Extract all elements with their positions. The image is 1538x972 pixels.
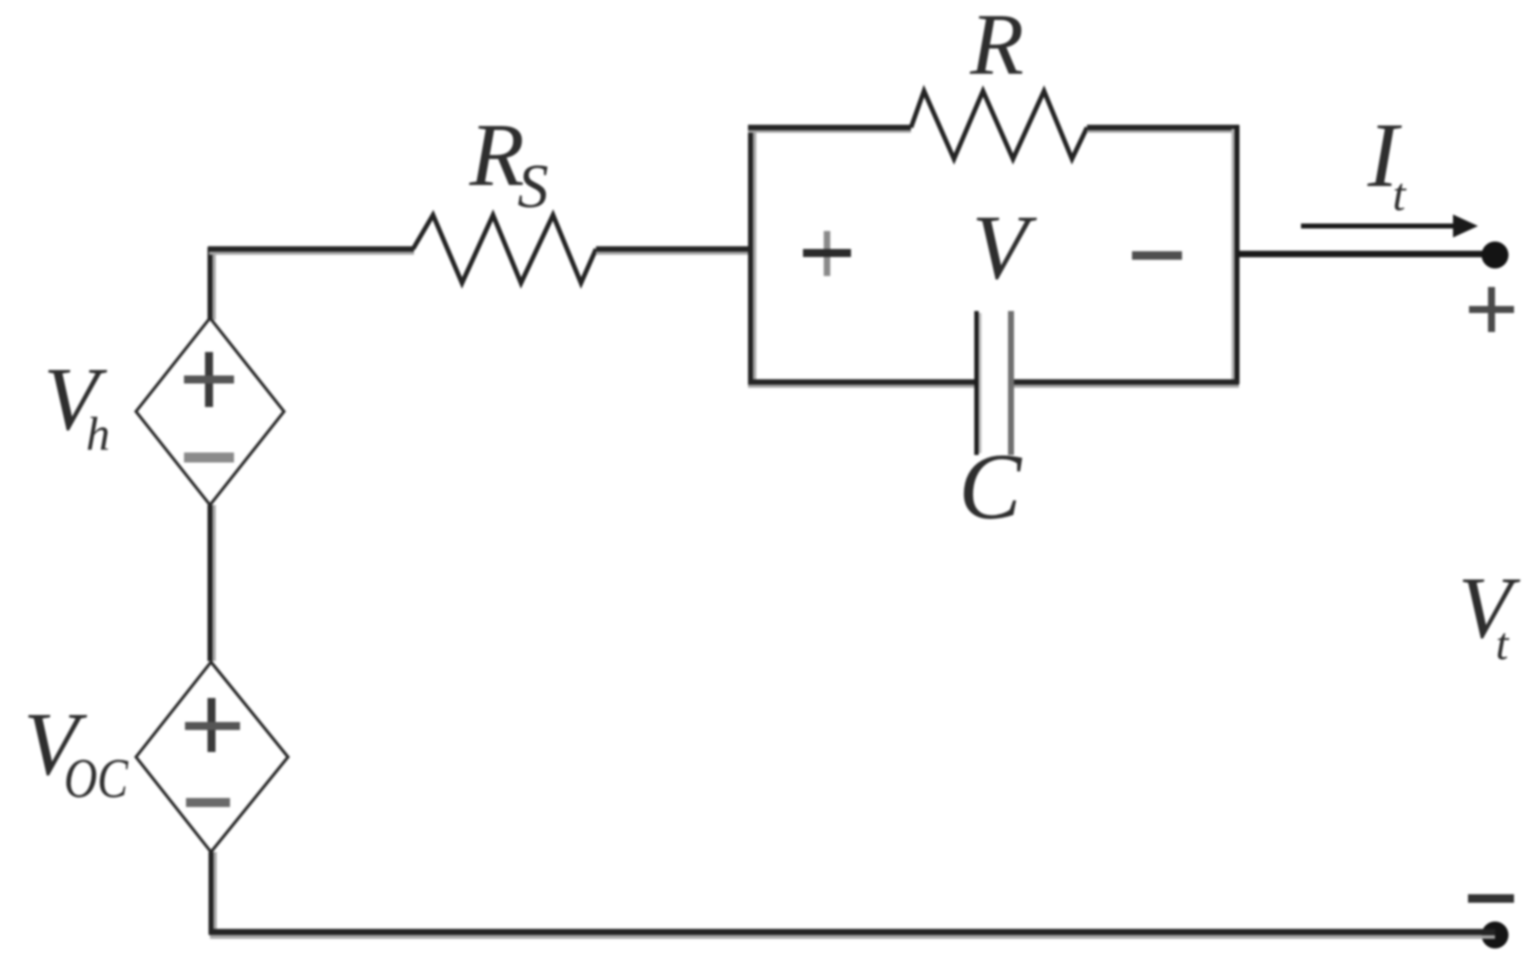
source Vh diamond (136, 318, 284, 505)
label RS (469, 106, 549, 221)
wire top horizontal left segment (208, 249, 414, 253)
RC block bottom edge right segment (1011, 382, 1239, 386)
source Voc diamond (136, 662, 288, 852)
RC block top edge right segment (1087, 128, 1239, 132)
svg-text:R: R (469, 106, 525, 205)
minus sign inside Voc (186, 798, 230, 807)
bottom rail wire (209, 932, 1495, 937)
plus sign at output terminal (1469, 287, 1514, 332)
wire from top node down to Vh top vertex (210, 247, 214, 320)
label Voc (24, 695, 129, 810)
svg-text:t: t (1392, 169, 1406, 221)
capacitor C left plate (977, 311, 981, 455)
RC block bottom edge left segment (748, 382, 976, 386)
RC block left edge (751, 125, 755, 384)
wire RC block to output node (1237, 251, 1484, 258)
wire between Vh and Voc (210, 505, 214, 661)
minus sign inside RC block (1132, 251, 1182, 260)
minus sign at output terminal (1468, 894, 1514, 903)
svg-text:V: V (1458, 560, 1521, 657)
label It (1367, 104, 1407, 221)
svg-text:t: t (1496, 618, 1510, 669)
resistor R zigzag (911, 91, 1087, 159)
wire Voc bottom vertex down to bottom rail (211, 852, 215, 934)
label Vh (44, 350, 110, 461)
RC block right edge (1233, 125, 1237, 384)
current arrow It (1301, 215, 1478, 238)
RC block top edge left segment (748, 128, 911, 132)
label Vt (1458, 560, 1521, 669)
node dot bottom right terminal (1482, 922, 1509, 949)
svg-text:R: R (969, 0, 1024, 94)
node dot top right terminal (1482, 242, 1509, 269)
minus sign inside Vh (184, 453, 234, 463)
resistor RS zigzag (413, 215, 596, 283)
capacitor C right plate (1008, 311, 1014, 455)
svg-text:V: V (972, 196, 1038, 298)
plus sign inside Voc (185, 698, 240, 752)
wire RS to RC block (596, 249, 751, 253)
svg-text:S: S (518, 153, 549, 221)
plus sign inside RC block (803, 231, 851, 276)
plus sign inside Vh (184, 352, 234, 407)
svg-text:C: C (959, 435, 1023, 539)
svg-text:OC: OC (64, 748, 129, 810)
svg-text:h: h (86, 408, 110, 461)
